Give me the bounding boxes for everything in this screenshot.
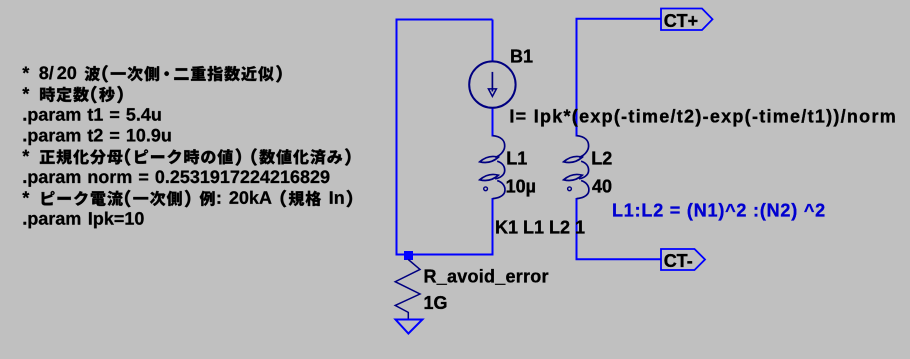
wire from top wire down to B1 top pin: [492, 20, 494, 63]
label CT-: [664, 251, 693, 271]
svg-text:L2: L2: [591, 149, 612, 169]
svg-text:L1:L2 = (N1)^2 :(N2) ^2: L1:L2 = (N1)^2 :(N2) ^2: [612, 200, 826, 220]
value 1G: [424, 293, 448, 313]
spice comment line 7: * peak current example: [22, 190, 352, 208]
wire L2 bottom to CT- flag: [577, 198, 662, 259]
L1 phase dot: [484, 187, 488, 191]
svg-text:K1 L1 L2 1: K1 L1 L2 1: [495, 218, 585, 238]
value 10u: [506, 177, 536, 197]
spice comment line 1: * 8/20 wave: [22, 65, 281, 83]
spice directive .param t1 = 5.4u: [24, 108, 161, 124]
resistor R_avoid_error zigzag: [395, 260, 420, 320]
svg-text:10µ: 10µ: [506, 177, 536, 197]
inductor L1 coil: [480, 136, 505, 199]
wire left loop: left vertical and top horizontal: [397, 20, 493, 256]
label R_avoid_error: [424, 266, 549, 286]
label L2: [591, 149, 612, 169]
spice directive .param t2 = 10.9u: [24, 129, 171, 145]
svg-text:R_avoid_error: R_avoid_error: [424, 266, 549, 286]
value 40: [592, 177, 612, 197]
svg-text:40: 40: [592, 177, 612, 197]
spice comment line 5: * normalization denominator: [22, 148, 350, 166]
svg-text:L1: L1: [506, 149, 527, 169]
B1 value: behavioral current expression: [509, 106, 897, 126]
L2 phase dot: [568, 187, 572, 191]
spice comment line 2: * time constants: [22, 86, 122, 104]
wire B1 bottom pin to L1 top: [492, 107, 494, 137]
spice directive K1 L1 L2 1: [495, 218, 585, 238]
flag CT+ outline: [661, 9, 713, 31]
svg-text:1G: 1G: [424, 293, 448, 313]
svg-text:I= Ipk*(exp(-time/t2)-exp(-tim: I= Ipk*(exp(-time/t2)-exp(-time/t1))/nor…: [509, 106, 897, 126]
blue comment L1:L2 ratio: [612, 200, 826, 220]
flag CT- outline: [661, 249, 705, 270]
spice directive .param norm = 0.2531917224216829: [24, 170, 330, 186]
label B1: [510, 47, 533, 67]
wire CT+ horizontal into flag: [577, 19, 662, 137]
node junction square at resistor top: [404, 251, 413, 260]
svg-text:CT-: CT-: [664, 251, 693, 271]
wire L1 bottom to bottom rail: [492, 198, 494, 256]
label CT+: [664, 11, 699, 31]
current source B1 circle: [469, 61, 515, 107]
svg-text:B1: B1: [510, 47, 533, 67]
inductor L2 coil: [564, 136, 589, 199]
label L1: [506, 149, 527, 169]
B1 arrow: [488, 72, 496, 97]
spice directive .param Ipk=10: [24, 212, 144, 229]
svg-text:CT+: CT+: [664, 11, 699, 31]
ground symbol: [396, 320, 423, 334]
wire bottom rail: [396, 254, 494, 256]
